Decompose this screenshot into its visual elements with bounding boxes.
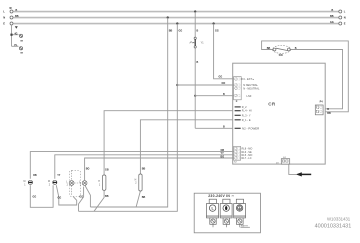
- svg-text:N2 - POWER: N2 - POWER: [242, 126, 259, 130]
- svg-text:BB: BB: [330, 15, 334, 18]
- svg-text:GG: GG: [33, 196, 37, 199]
- svg-text:GB: GB: [105, 169, 109, 172]
- svg-text:1: 1: [24, 184, 26, 186]
- svg-text:BB: BB: [327, 112, 331, 115]
- svg-text:E: E: [3, 22, 5, 26]
- svg-text:M: M: [24, 181, 26, 183]
- svg-text:L: L: [3, 10, 5, 14]
- svg-text:GG: GG: [330, 21, 334, 24]
- svg-text:BO: BO: [86, 168, 90, 171]
- svg-text:R_2: R_2: [242, 105, 247, 109]
- svg-text:GG: GG: [79, 196, 83, 199]
- svg-text:4G: 4G: [14, 32, 17, 35]
- svg-text:CR: CR: [268, 102, 276, 107]
- svg-text:BB: BB: [267, 47, 271, 50]
- svg-text:BB: BB: [142, 196, 146, 199]
- svg-text:BB: BB: [15, 15, 19, 18]
- svg-text:B: B: [223, 93, 225, 96]
- svg-text:B: B: [327, 108, 329, 111]
- svg-text:E: E: [344, 22, 346, 26]
- svg-text:B: B: [295, 47, 297, 50]
- svg-text:2: 2: [49, 184, 51, 186]
- svg-text:SW: SW: [279, 53, 284, 57]
- svg-text:BB: BB: [142, 168, 146, 171]
- svg-text:GG: GG: [58, 197, 62, 200]
- svg-text:M: M: [48, 181, 50, 183]
- svg-text:W10331431: W10331431: [327, 216, 351, 221]
- svg-text:W: W: [9, 7, 12, 10]
- svg-text:Y1: Y1: [201, 42, 205, 45]
- svg-text:GG: GG: [219, 76, 223, 79]
- svg-text:1: 1: [99, 184, 101, 186]
- svg-text:K3 - EXT ▸: K3 - EXT ▸: [242, 77, 255, 81]
- svg-text:N: N: [344, 16, 346, 20]
- svg-text:2: 2: [135, 183, 137, 185]
- svg-text:DB: DB: [33, 174, 37, 177]
- svg-text:BB: BB: [169, 30, 173, 33]
- svg-text:P4: P4: [320, 100, 324, 103]
- svg-text:GG: GG: [179, 30, 183, 33]
- svg-text:R_1 - E: R_1 - E: [242, 118, 251, 122]
- svg-text:B: B: [223, 125, 225, 128]
- svg-text:H: H: [98, 181, 100, 183]
- svg-text:B: B: [332, 9, 334, 12]
- svg-text:X2: X2: [234, 162, 237, 164]
- svg-text:L: L: [66, 181, 68, 183]
- svg-text:230-240V IN ∼: 230-240V IN ∼: [208, 194, 234, 198]
- svg-text:2: 2: [67, 185, 69, 187]
- svg-text:YY: YY: [57, 174, 61, 177]
- svg-text:N - NEUTRAL: N - NEUTRAL: [243, 86, 260, 90]
- svg-text:B: B: [197, 61, 199, 64]
- svg-text:X8: X8: [20, 40, 23, 42]
- svg-text:OO: OO: [222, 82, 226, 85]
- svg-text:LNF: LNF: [247, 94, 252, 98]
- svg-text:B: B: [16, 9, 18, 12]
- svg-text:B: B: [197, 30, 199, 33]
- svg-text:1: 1: [80, 185, 82, 187]
- svg-text:RL7 - LC: RL7 - LC: [242, 157, 252, 160]
- svg-text:L: L: [79, 181, 81, 183]
- svg-text:BB: BB: [105, 195, 109, 198]
- svg-text:X8: X8: [20, 53, 23, 55]
- svg-text:GG: GG: [215, 30, 219, 33]
- svg-text:R_4 - HI: R_4 - HI: [242, 109, 252, 113]
- svg-text:N: N: [3, 16, 5, 20]
- svg-text:R_3 - Y: R_3 - Y: [242, 113, 251, 117]
- svg-text:L: L: [344, 10, 346, 14]
- svg-text:400010331431: 400010331431: [315, 224, 352, 230]
- svg-text:H: H: [135, 179, 137, 181]
